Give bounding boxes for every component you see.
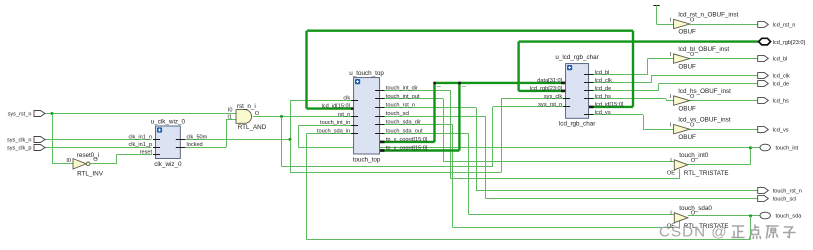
svg-text:O: O (93, 157, 98, 163)
svg-text:touch_sda0: touch_sda0 (679, 205, 712, 212)
svg-text:sys_clk_n: sys_clk_n (7, 137, 32, 143)
svg-text:clk_wiz_0: clk_wiz_0 (154, 161, 182, 168)
svg-text:RTL_TRISTATE: RTL_TRISTATE (684, 170, 729, 177)
svg-text:touch_rst_n: touch_rst_n (773, 188, 802, 194)
svg-text:lcd_de: lcd_de (773, 81, 789, 87)
svg-text:lcd_rst_n_OBUF_inst: lcd_rst_n_OBUF_inst (678, 11, 738, 18)
svg-text:lcd_clk: lcd_clk (595, 78, 612, 84)
svg-text:I0: I0 (66, 158, 71, 164)
svg-text:lcd_vs_OBUF_inst: lcd_vs_OBUF_inst (678, 117, 730, 124)
svg-text:tp_x_coord[15:0]: tp_x_coord[15:0] (386, 137, 428, 143)
svg-text:touch_sda_dir: touch_sda_dir (386, 120, 421, 126)
svg-text:touch_sda: touch_sda (776, 213, 803, 219)
svg-text:OBUF: OBUF (678, 105, 696, 112)
svg-text:touch_scl: touch_scl (773, 196, 797, 202)
svg-text:touch_sda_in: touch_sda_in (317, 129, 350, 135)
svg-text:lcd_vs: lcd_vs (773, 127, 789, 133)
svg-text:lcd_bl: lcd_bl (595, 70, 610, 76)
svg-text:lcd_rgb[23:0]: lcd_rgb[23:0] (530, 86, 563, 92)
svg-text:O: O (690, 123, 695, 129)
svg-text:touch_int_out: touch_int_out (386, 94, 420, 100)
svg-text:RTL_AND: RTL_AND (238, 124, 267, 131)
svg-text:OBUF: OBUF (678, 134, 696, 141)
svg-text:touch_int0: touch_int0 (679, 152, 709, 159)
svg-text:lcd_hs_OBUF_inst: lcd_hs_OBUF_inst (678, 88, 731, 95)
svg-text:touch_int_dir: touch_int_dir (386, 85, 418, 91)
svg-text:clk_50m: clk_50m (187, 134, 208, 140)
svg-text:lcd_id[15:0]: lcd_id[15:0] (595, 102, 624, 108)
svg-text:sys_rst_n: sys_rst_n (538, 102, 562, 108)
svg-text:touch_scl: touch_scl (386, 111, 410, 117)
svg-text:touch_sda_out: touch_sda_out (386, 128, 423, 134)
svg-text:rst_n_i: rst_n_i (237, 103, 256, 110)
svg-text:lcd_de: lcd_de (595, 86, 611, 92)
svg-text:touch_top: touch_top (353, 156, 381, 163)
svg-text:u_lcd_rgb_char: u_lcd_rgb_char (555, 54, 598, 61)
svg-text:I1: I1 (227, 114, 232, 120)
svg-text:locked: locked (187, 142, 203, 148)
svg-text:lcd_bl: lcd_bl (773, 56, 788, 62)
svg-text:lcd_rst_n: lcd_rst_n (773, 22, 796, 28)
svg-text:sys_rst_n: sys_rst_n (8, 111, 32, 117)
svg-text:rst_n: rst_n (338, 112, 350, 118)
svg-text:touch_rst_n: touch_rst_n (386, 103, 415, 109)
svg-text:CSDN @: CSDN @ (659, 224, 728, 241)
svg-text:sys_clk: sys_clk (544, 94, 563, 100)
svg-text:lcd_vs: lcd_vs (595, 110, 611, 116)
svg-text:lcd_id[15:0]: lcd_id[15:0] (322, 104, 351, 110)
svg-text:lcd_bl_OBUF_inst: lcd_bl_OBUF_inst (678, 46, 729, 53)
svg-text:clk: clk (343, 95, 350, 101)
svg-text:lcd_clk: lcd_clk (773, 73, 790, 79)
svg-text:sys_clk_p: sys_clk_p (7, 145, 32, 151)
svg-text:lcd_rgb[23:0]: lcd_rgb[23:0] (773, 40, 806, 46)
svg-text:OBUF: OBUF (678, 29, 696, 36)
svg-text:OBUF: OBUF (678, 63, 696, 70)
svg-text:I0: I0 (228, 108, 233, 114)
svg-text:RTL_INV: RTL_INV (77, 170, 104, 177)
svg-text:clk_in1_n: clk_in1_n (128, 134, 152, 140)
svg-text:lcd_rgb_char: lcd_rgb_char (559, 121, 595, 128)
svg-text:u_clk_wiz_0: u_clk_wiz_0 (151, 118, 186, 125)
svg-text:data[31:0]: data[31:0] (537, 78, 562, 84)
svg-text:OE: OE (667, 171, 675, 177)
svg-text:O: O (255, 111, 260, 117)
svg-text:reset: reset (140, 150, 153, 156)
svg-text:touch_int: touch_int (776, 145, 799, 151)
svg-text:lcd_hs: lcd_hs (595, 94, 611, 100)
svg-text:tp_y_coord[15:0]: tp_y_coord[15:0] (386, 146, 428, 152)
svg-text:u_touch_top: u_touch_top (349, 70, 384, 77)
svg-text:touch_int_in: touch_int_in (320, 120, 350, 126)
svg-text:lcd_hs: lcd_hs (773, 98, 789, 104)
svg-text:clk_in1_p: clk_in1_p (128, 142, 152, 148)
